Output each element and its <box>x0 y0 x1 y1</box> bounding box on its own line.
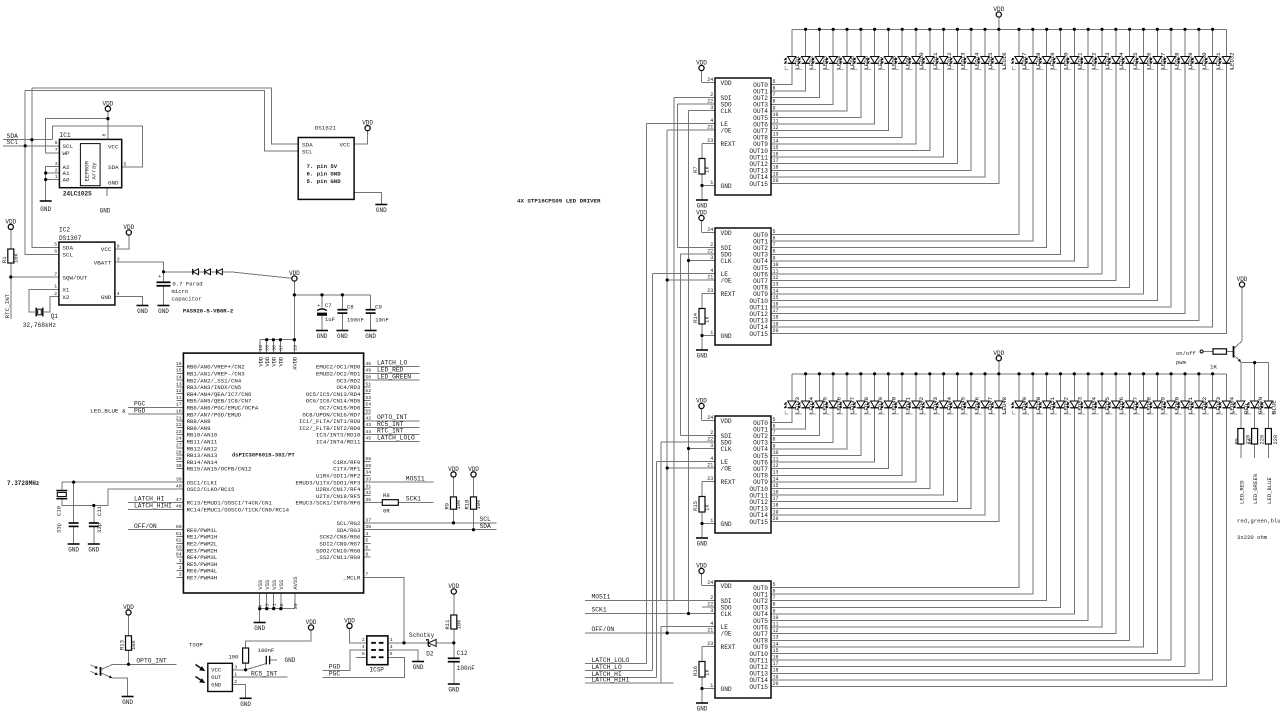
svg-text:LED31: LED31 <box>1215 52 1222 70</box>
svg-text:VDD: VDD <box>271 356 278 367</box>
svg-text:100nF: 100nF <box>347 317 365 324</box>
svg-text:100nF: 100nF <box>258 647 275 654</box>
svg-text:6. pin GND: 6. pin GND <box>307 171 342 178</box>
svg-text:9: 9 <box>773 608 776 614</box>
svg-text:12: 12 <box>176 388 182 394</box>
svg-text:VDD: VDD <box>362 120 373 127</box>
svg-text:VSS: VSS <box>271 579 278 590</box>
svg-text:17: 17 <box>773 661 779 667</box>
svg-text:GND: GND <box>254 625 265 632</box>
svg-text:RC5_INT: RC5_INT <box>251 670 278 677</box>
svg-text:6: 6 <box>362 651 365 657</box>
svg-text:LED15: LED15 <box>987 52 994 70</box>
svg-text:58: 58 <box>365 456 371 462</box>
svg-text:2: 2 <box>710 595 713 601</box>
svg-text:1: 1 <box>55 174 58 180</box>
svg-text:19: 19 <box>773 509 779 515</box>
svg-text:LED46: LED46 <box>973 396 980 414</box>
svg-text:VCC: VCC <box>339 141 350 148</box>
svg-text:6: 6 <box>773 424 776 430</box>
svg-text:AVDD: AVDD <box>292 356 299 370</box>
svg-text:21: 21 <box>707 627 713 633</box>
svg-text:SDA: SDA <box>108 164 119 171</box>
svg-text:capacitor: capacitor <box>172 295 202 302</box>
svg-text:5: 5 <box>124 162 127 168</box>
svg-text:R9: R9 <box>444 503 451 510</box>
svg-text:CLK: CLK <box>721 258 732 265</box>
svg-text:LED_GREEN: LED_GREEN <box>377 373 411 380</box>
svg-text:23: 23 <box>707 641 713 647</box>
svg-text:LED53: LED53 <box>1077 396 1084 414</box>
svg-text:REXT: REXT <box>721 644 736 651</box>
svg-text:220: 220 <box>1273 435 1279 445</box>
svg-text:GND: GND <box>337 333 348 340</box>
svg-text:GND: GND <box>317 333 328 340</box>
svg-text:10: 10 <box>773 112 779 118</box>
svg-text:OUT15: OUT15 <box>749 181 768 188</box>
svg-text:39: 39 <box>176 477 182 483</box>
svg-text:LED33: LED33 <box>794 396 801 414</box>
svg-text:22: 22 <box>707 248 713 254</box>
svg-text:R10: R10 <box>464 500 471 510</box>
svg-text:LED_BLUE &: LED_BLUE & <box>90 407 126 414</box>
svg-text:7: 7 <box>55 147 58 153</box>
svg-text:C8: C8 <box>347 303 354 310</box>
svg-text:53: 53 <box>365 395 371 401</box>
svg-text:LED52: LED52 <box>1063 396 1070 414</box>
svg-text:4: 4 <box>710 621 713 627</box>
svg-text:17: 17 <box>773 496 779 502</box>
svg-text:13: 13 <box>773 132 779 138</box>
svg-text:32: 32 <box>365 490 371 496</box>
svg-text:VDD: VDD <box>1237 276 1248 283</box>
svg-text:49: 49 <box>365 368 371 374</box>
svg-text:LED47: LED47 <box>987 397 994 414</box>
svg-text:LED56: LED56 <box>1118 396 1125 414</box>
svg-text:SDA: SDA <box>302 141 313 148</box>
svg-text:C7: C7 <box>325 302 332 309</box>
svg-text:14: 14 <box>773 641 779 647</box>
svg-text:19: 19 <box>773 171 779 177</box>
svg-text:2: 2 <box>710 430 713 436</box>
svg-text:LED28: LED28 <box>1173 52 1180 70</box>
svg-text:R8: R8 <box>383 492 390 499</box>
svg-text:24: 24 <box>707 580 713 586</box>
svg-text:LED25: LED25 <box>1132 52 1139 70</box>
svg-text:/OE: /OE <box>721 465 732 472</box>
svg-text:LED19: LED19 <box>1049 52 1056 70</box>
svg-text:9: 9 <box>773 443 776 449</box>
svg-text:R7: R7 <box>692 166 699 173</box>
svg-text:SDA: SDA <box>480 523 492 530</box>
svg-text:LED13: LED13 <box>960 52 967 70</box>
svg-text:LED_BLUE: LED_BLUE <box>1266 477 1273 504</box>
svg-text:18: 18 <box>773 165 779 171</box>
svg-text:8: 8 <box>117 244 120 250</box>
svg-text:LED10: LED10 <box>918 52 925 70</box>
svg-text:14: 14 <box>773 288 779 294</box>
svg-text:12: 12 <box>773 125 779 131</box>
svg-text:GND: GND <box>448 687 459 694</box>
svg-text:MOSI1: MOSI1 <box>406 475 425 482</box>
svg-text:6: 6 <box>773 589 776 595</box>
svg-text:GND: GND <box>40 206 51 213</box>
svg-text:5: 5 <box>773 417 776 423</box>
svg-text:VDD: VDD <box>306 619 317 626</box>
svg-text:26: 26 <box>265 345 271 351</box>
svg-text:LED30: LED30 <box>1201 52 1208 70</box>
svg-text:8: 8 <box>773 602 776 608</box>
svg-text:PAS920-5-VB6R-2: PAS920-5-VB6R-2 <box>183 308 234 315</box>
svg-text:LATCH_LOLO: LATCH_LOLO <box>377 435 415 442</box>
svg-text:LED18: LED18 <box>1035 52 1042 70</box>
svg-text:9: 9 <box>258 605 264 608</box>
svg-text:10: 10 <box>773 262 779 268</box>
svg-text:SDA: SDA <box>62 245 73 252</box>
svg-text:D2: D2 <box>426 650 434 657</box>
svg-text:LED_GREEN: LED_GREEN <box>1252 474 1259 504</box>
svg-text:37: 37 <box>365 517 371 523</box>
svg-text:5: 5 <box>773 582 776 588</box>
svg-text:1: 1 <box>710 180 713 186</box>
svg-text:LED54: LED54 <box>1090 396 1097 414</box>
svg-text:LED61: LED61 <box>1187 396 1194 414</box>
svg-text:10k: 10k <box>456 619 463 630</box>
svg-text:18: 18 <box>773 503 779 509</box>
svg-text:1uF: 1uF <box>325 316 336 323</box>
svg-text:55: 55 <box>365 409 371 415</box>
svg-text:CLK: CLK <box>721 446 732 453</box>
svg-text:Array: Array <box>91 162 98 180</box>
svg-text:DS1307: DS1307 <box>59 235 82 242</box>
svg-text:R1: R1 <box>1 256 8 263</box>
svg-text:7. pin 5V: 7. pin 5V <box>307 163 338 170</box>
svg-text:OUT15: OUT15 <box>749 331 768 338</box>
svg-text:LED37: LED37 <box>849 397 856 414</box>
svg-text:10k: 10k <box>130 639 137 650</box>
svg-text:1: 1 <box>710 518 713 524</box>
svg-text:20: 20 <box>773 681 779 687</box>
svg-text:LED32: LED32 <box>1229 52 1236 70</box>
svg-text:18: 18 <box>773 315 779 321</box>
svg-text:LED44: LED44 <box>946 396 953 414</box>
svg-text:11: 11 <box>176 395 182 401</box>
svg-text:C11: C11 <box>96 505 103 516</box>
svg-text:4: 4 <box>710 456 713 462</box>
svg-text:LED29: LED29 <box>1187 52 1194 70</box>
svg-text:PGD: PGD <box>134 407 146 414</box>
svg-text:IC2: IC2 <box>59 227 70 234</box>
svg-text:RED: RED <box>1243 403 1250 414</box>
svg-text:48: 48 <box>176 504 182 510</box>
svg-text:5: 5 <box>390 651 393 657</box>
svg-text:OUT: OUT <box>211 674 222 681</box>
svg-text:17: 17 <box>176 402 182 408</box>
svg-text:MOSI1: MOSI1 <box>592 594 611 601</box>
svg-text:61: 61 <box>176 531 182 537</box>
svg-text:13: 13 <box>773 282 779 288</box>
svg-text:LATCH_LOLO: LATCH_LOLO <box>592 657 630 664</box>
svg-text:220: 220 <box>1259 435 1265 445</box>
svg-text:VDD: VDD <box>696 60 707 67</box>
svg-text:CLK: CLK <box>721 108 732 115</box>
svg-text:VDD: VDD <box>344 618 355 625</box>
svg-text:VDD: VDD <box>468 466 479 473</box>
svg-text:1: 1 <box>390 637 393 643</box>
svg-text:CLK: CLK <box>721 611 732 618</box>
svg-text:DS1621: DS1621 <box>315 125 337 132</box>
svg-text:46: 46 <box>365 361 371 367</box>
svg-text:LED48: LED48 <box>1001 396 1008 414</box>
svg-text:red,green,blue: red,green,blue <box>1237 518 1280 525</box>
svg-text:23: 23 <box>707 476 713 482</box>
svg-text:10: 10 <box>773 450 779 456</box>
svg-text:21: 21 <box>707 462 713 468</box>
svg-text:51: 51 <box>365 381 371 387</box>
svg-text:19: 19 <box>773 321 779 327</box>
svg-text:52: 52 <box>365 388 371 394</box>
svg-text:dsPIC30F6015-30I/PT: dsPIC30F6015-30I/PT <box>232 452 295 459</box>
svg-text:2: 2 <box>362 637 365 643</box>
svg-text:17: 17 <box>773 308 779 314</box>
svg-text:VCC: VCC <box>108 143 119 150</box>
svg-text:14: 14 <box>176 375 182 381</box>
svg-text:/OE: /OE <box>721 127 732 134</box>
svg-text:12: 12 <box>773 628 779 634</box>
svg-text:LED42: LED42 <box>918 396 925 414</box>
svg-text:VDD: VDD <box>721 230 732 237</box>
svg-text:LED12: LED12 <box>946 52 953 70</box>
svg-text:VDD: VDD <box>721 583 732 590</box>
svg-text:5: 5 <box>365 538 368 544</box>
svg-text:VDD: VDD <box>123 224 134 231</box>
svg-text:22: 22 <box>707 98 713 104</box>
svg-text:3: 3 <box>710 255 713 261</box>
svg-text:35: 35 <box>365 497 371 503</box>
svg-text:A0: A0 <box>63 177 71 184</box>
svg-text:LED14: LED14 <box>973 52 980 70</box>
svg-text:LED20: LED20 <box>1063 52 1070 70</box>
svg-text:15: 15 <box>176 368 182 374</box>
svg-text:OUT15: OUT15 <box>749 684 768 691</box>
svg-text:14: 14 <box>773 476 779 482</box>
svg-text:6: 6 <box>773 236 776 242</box>
svg-text:24: 24 <box>707 77 713 83</box>
svg-text:LED63: LED63 <box>1215 396 1222 414</box>
svg-text:LED17: LED17 <box>1021 52 1028 69</box>
svg-text:GND: GND <box>68 547 79 554</box>
svg-text:PGC: PGC <box>329 671 341 678</box>
svg-text:23: 23 <box>176 429 182 435</box>
svg-text:1: 1 <box>179 558 182 564</box>
svg-text:LED41: LED41 <box>904 396 911 414</box>
svg-text:47: 47 <box>176 497 182 503</box>
svg-text:C10: C10 <box>56 506 63 516</box>
svg-text:23: 23 <box>707 138 713 144</box>
svg-text:62: 62 <box>176 538 182 544</box>
svg-text:18: 18 <box>176 409 182 415</box>
svg-text:LED21: LED21 <box>1077 52 1084 70</box>
svg-text:LED22: LED22 <box>1090 52 1097 70</box>
svg-text:VDD: VDD <box>696 398 707 405</box>
svg-text:6: 6 <box>54 249 57 255</box>
svg-text:15: 15 <box>773 145 779 151</box>
svg-text:OSC2/CLKO/RC15: OSC2/CLKO/RC15 <box>187 486 235 493</box>
svg-text:LATCH_HIHI: LATCH_HIHI <box>592 676 630 683</box>
svg-text:20: 20 <box>773 516 779 522</box>
svg-text:GREEN: GREEN <box>1257 397 1264 414</box>
svg-text:VDD: VDD <box>448 583 459 590</box>
svg-text:54: 54 <box>365 402 371 408</box>
svg-text:EEPROM: EEPROM <box>84 160 91 181</box>
svg-text:R5: R5 <box>1234 438 1240 444</box>
svg-text:5: 5 <box>773 79 776 85</box>
svg-text:on/off: on/off <box>1176 350 1196 357</box>
svg-text:LED27: LED27 <box>1160 52 1167 69</box>
svg-text:1K: 1K <box>1210 364 1218 371</box>
svg-text:8: 8 <box>365 551 368 557</box>
svg-text:1k: 1k <box>704 504 711 511</box>
svg-text:EMUC3/SCK1/INT0/RF6: EMUC3/SCK1/INT0/RF6 <box>296 500 361 507</box>
svg-text:OFF/ON: OFF/ON <box>134 523 157 530</box>
svg-text:33p: 33p <box>96 523 103 533</box>
svg-text:C9: C9 <box>375 303 382 310</box>
svg-text:3: 3 <box>710 105 713 111</box>
svg-text:10nF: 10nF <box>375 317 389 324</box>
svg-text:LED34: LED34 <box>808 396 815 414</box>
svg-text:LED55: LED55 <box>1104 396 1111 414</box>
svg-text:3: 3 <box>179 572 182 578</box>
svg-text:27: 27 <box>176 443 182 449</box>
svg-text:1: 1 <box>234 672 237 678</box>
svg-text:LATCH_HIHI: LATCH_HIHI <box>134 503 172 510</box>
svg-text:1: 1 <box>54 284 57 290</box>
svg-text:GND: GND <box>108 179 119 186</box>
svg-text:24: 24 <box>176 436 182 442</box>
svg-text:_MCLR: _MCLR <box>342 575 361 582</box>
svg-text:23: 23 <box>707 288 713 294</box>
svg-text:8: 8 <box>773 99 776 105</box>
svg-text:pwm: pwm <box>1176 359 1187 366</box>
svg-text:LED26: LED26 <box>1146 52 1153 70</box>
svg-text:3: 3 <box>710 443 713 449</box>
svg-text:VDD: VDD <box>993 6 1004 13</box>
svg-text:29: 29 <box>176 456 182 462</box>
svg-text:VDD: VDD <box>696 563 707 570</box>
svg-text:SCL: SCL <box>63 143 74 150</box>
svg-text:VDD: VDD <box>721 80 732 87</box>
svg-text:GND: GND <box>211 681 222 688</box>
svg-text:GND: GND <box>285 657 296 664</box>
svg-text:6: 6 <box>773 86 776 92</box>
svg-text:11: 11 <box>773 457 779 463</box>
svg-text:16: 16 <box>773 302 779 308</box>
svg-text:2: 2 <box>54 291 57 297</box>
svg-text:OUT15: OUT15 <box>749 519 768 526</box>
svg-text:38: 38 <box>271 345 277 351</box>
svg-text:40: 40 <box>176 483 182 489</box>
svg-text:GND: GND <box>101 294 112 301</box>
svg-text:4: 4 <box>365 531 368 537</box>
svg-text:36: 36 <box>365 524 371 530</box>
svg-text:19: 19 <box>773 674 779 680</box>
svg-text:2: 2 <box>234 679 237 685</box>
svg-text:LED39: LED39 <box>877 396 884 414</box>
svg-text:24LC1025: 24LC1025 <box>63 190 92 197</box>
svg-text:33: 33 <box>365 477 371 483</box>
svg-text:33p: 33p <box>56 523 63 533</box>
svg-text:19: 19 <box>292 345 298 351</box>
svg-text:1k: 1k <box>704 166 711 173</box>
svg-text:AVSS: AVSS <box>292 576 299 590</box>
svg-text:SCl: SCl <box>7 139 19 146</box>
svg-text:9: 9 <box>773 105 776 111</box>
svg-text:7: 7 <box>773 595 776 601</box>
svg-text:RB15/AN15/OCFB/CN12: RB15/AN15/OCFB/CN12 <box>187 466 252 473</box>
svg-text:+: + <box>317 303 320 309</box>
svg-text:LED_RED: LED_RED <box>1238 480 1245 504</box>
svg-text:8: 8 <box>773 437 776 443</box>
svg-text:43: 43 <box>365 422 371 428</box>
svg-text:3: 3 <box>234 664 237 670</box>
svg-text:R16: R16 <box>692 666 699 676</box>
svg-text:100nF: 100nF <box>457 665 475 672</box>
svg-text:IC1: IC1 <box>60 132 71 139</box>
svg-text:6: 6 <box>365 545 368 551</box>
svg-text:44: 44 <box>365 429 371 435</box>
svg-text:GND: GND <box>376 207 387 214</box>
svg-text:16: 16 <box>773 490 779 496</box>
svg-text:2: 2 <box>55 167 58 173</box>
svg-text:4: 4 <box>710 268 713 274</box>
svg-text:RTC_INT: RTC_INT <box>4 293 11 318</box>
svg-text:3x220 ohm: 3x220 ohm <box>1237 534 1268 541</box>
svg-text:VDD: VDD <box>123 604 134 611</box>
svg-text:4: 4 <box>362 644 365 650</box>
svg-text:RC14/EMUC1/SOSCO/T1CK/CN0/RC14: RC14/EMUC1/SOSCO/T1CK/CN0/RC14 <box>187 507 290 514</box>
svg-text:22: 22 <box>707 601 713 607</box>
svg-text:1: 1 <box>710 683 713 689</box>
svg-text:30: 30 <box>176 463 182 469</box>
svg-text:/OE: /OE <box>721 630 732 637</box>
svg-text:REXT: REXT <box>721 291 736 298</box>
svg-text:12: 12 <box>773 463 779 469</box>
svg-text:LED24: LED24 <box>1118 52 1125 70</box>
svg-text:5. pin GND: 5. pin GND <box>307 178 342 185</box>
svg-text:LED49: LED49 <box>1021 396 1028 414</box>
svg-text:IC4/INT4/RD11: IC4/INT4/RD11 <box>316 439 361 446</box>
svg-text:GND: GND <box>158 308 169 315</box>
svg-text:8: 8 <box>102 134 108 137</box>
svg-text:LED50: LED50 <box>1035 396 1042 414</box>
svg-text:63: 63 <box>176 545 182 551</box>
svg-text:7: 7 <box>54 271 57 277</box>
svg-text:2: 2 <box>179 565 182 571</box>
svg-text:REXT: REXT <box>721 479 736 486</box>
svg-text:59: 59 <box>365 463 371 469</box>
svg-text:18: 18 <box>773 668 779 674</box>
svg-text:7: 7 <box>773 242 776 248</box>
svg-text:C12: C12 <box>457 650 468 657</box>
svg-text:RE7/PWM4H: RE7/PWM4H <box>187 575 218 582</box>
svg-text:10k: 10k <box>475 499 482 510</box>
svg-text:VBATT: VBATT <box>94 259 112 266</box>
svg-text:1k: 1k <box>704 669 711 676</box>
svg-text:REXT: REXT <box>721 141 736 148</box>
svg-text:SCK1: SCK1 <box>406 496 421 503</box>
svg-text:32,768kHz: 32,768kHz <box>23 322 57 329</box>
svg-text:GND: GND <box>413 664 424 671</box>
